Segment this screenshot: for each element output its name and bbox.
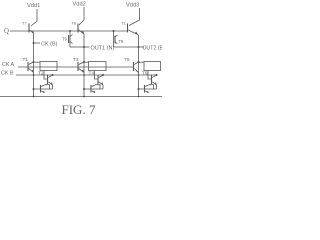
wire stage1 main vertical [33, 34, 35, 97]
svg-text:Vdd1: Vdd1 [27, 3, 40, 9]
wire T4 emitter drop [102, 85, 104, 89]
node stage3 box junction [138, 61, 140, 63]
node stage2 lower junction [83, 88, 85, 90]
svg-text:T1: T1 [121, 21, 126, 26]
wire to capacitor box C1 [34, 61, 41, 63]
wire T6 base lead [148, 71, 151, 80]
wire T6 emitter drop [156, 85, 158, 89]
wire T4 base lead [95, 71, 98, 80]
wire stage3 out lateral [114, 46, 139, 48]
node stage1 CKB crossing [33, 74, 35, 76]
svg-text:OUT2 (B): OUT2 (B) [143, 46, 163, 52]
wire stage2 top supply lead [79, 7, 84, 25]
svg-text:T2: T2 [38, 71, 44, 77]
node stage3 upper loop tap on Q line [113, 30, 115, 32]
svg-text:Q: Q [4, 28, 9, 35]
node T2 collector on CKB [52, 74, 54, 76]
capacitor box C2 [89, 62, 107, 71]
svg-text:OUT1 (N): OUT1 (N) [91, 46, 115, 52]
transistor stage2 bottom diode loop [91, 85, 100, 94]
svg-text:Vdd2: Vdd2 [73, 2, 86, 8]
wire T2 base lead [44, 71, 47, 80]
wire to capacitor box C2 [84, 61, 89, 63]
svg-text:T6: T6 [142, 71, 148, 77]
svg-text:T9: T9 [119, 39, 125, 44]
node T6 collector on CKB [156, 74, 158, 76]
transistor T1 [28, 62, 34, 73]
wire stage1 top supply lead [31, 9, 37, 26]
transistor T7 (stage 1 top) [29, 24, 34, 34]
node stage2 bus junction [83, 96, 85, 98]
svg-text:T5: T5 [124, 57, 130, 63]
transistor stage3 bottom diode loop [145, 85, 154, 94]
transistor T6 [152, 75, 157, 85]
capacitor box C1 [40, 62, 57, 71]
svg-text:Vdd3: Vdd3 [126, 3, 139, 9]
transistor stage2 upper (diode connected) [69, 31, 73, 47]
node stage2 CKB crossing [83, 74, 85, 76]
node stage2 box junction [83, 61, 85, 63]
transistor T10 (stage 3 top) [128, 24, 139, 36]
wire OUT2 stub [139, 46, 145, 48]
node stage3 bus junction [138, 96, 140, 98]
wire to capacitor box C3 [139, 61, 145, 63]
node stage1 CKB tap [33, 42, 35, 44]
svg-text:T9: T9 [62, 37, 68, 42]
wire stage3 lower lateral [139, 88, 157, 90]
transistor T2 [48, 75, 53, 85]
wire stage2 out lateral [70, 46, 84, 48]
transistor stage1 bottom diode loop [41, 85, 50, 94]
node stage1 bus junction [33, 96, 35, 98]
transistor T4 [98, 75, 103, 85]
wire OUT1 stub [84, 46, 90, 48]
node OUT2 junction [138, 46, 140, 48]
svg-text:T7: T7 [22, 21, 27, 26]
transistor stage3 upper (diode connected) [114, 31, 118, 47]
wire clock line CK B [16, 74, 157, 76]
svg-text:T8: T8 [72, 21, 77, 26]
transistor T5 [134, 62, 139, 73]
svg-text:CK (B): CK (B) [41, 42, 58, 48]
node T4 collector on CKB [102, 74, 104, 76]
transistor T8 (stage 2 top) [78, 24, 84, 35]
wire stage3 top supply lead [129, 8, 140, 26]
svg-text:CK A: CK A [2, 62, 15, 68]
wire stage2 lower lateral [84, 88, 103, 90]
node stage3 lower junction [138, 88, 140, 90]
wire node Q bus [10, 30, 128, 32]
node stage2 upper loop tap on Q line [69, 30, 71, 32]
wire bottom supply bus [0, 96, 162, 98]
node stage1 lower junction [33, 88, 35, 90]
node OUT1 junction [83, 46, 85, 48]
wire stage1 lower lateral [34, 88, 53, 90]
wire stage3 main vertical [138, 35, 140, 97]
transistor T3 [78, 62, 84, 73]
capacitor box C3 [144, 62, 161, 71]
svg-text:FIG. 7: FIG. 7 [62, 102, 96, 117]
node stage3 CKB crossing [138, 74, 140, 76]
svg-text:CK B: CK B [1, 71, 14, 77]
wire T2 emitter drop [52, 85, 54, 89]
node stage1 box junction [33, 61, 35, 63]
wire stage2 main vertical [83, 34, 85, 97]
wire CK(B) stub [34, 42, 41, 44]
svg-text:T4: T4 [89, 71, 95, 77]
wire clock line CK A [18, 66, 134, 68]
